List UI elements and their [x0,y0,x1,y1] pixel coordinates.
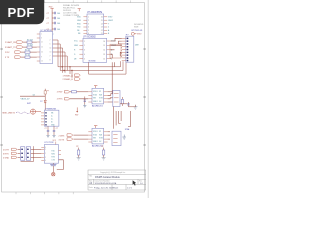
svg-text:104: 104 [57,13,60,15]
svg-text:V2: V2 [99,91,101,93]
svg-text:VISO: VISO [108,17,113,19]
wire U7 loop right [57,160,64,170]
connector plug symbol [30,109,41,114]
svg-text:3: 3 [84,50,85,52]
svg-text:4: 4 [45,147,46,149]
svg-text:3 DTX: 3 DTX [59,139,65,141]
capacitor CA [84,97,86,105]
port DTX [59,138,89,142]
wires P1 left nest [110,38,122,58]
power flag VISO [131,32,136,35]
IC U6 inner text [93,131,103,143]
svg-text:R?: R? [76,146,78,148]
connector P1 pads [127,38,129,62]
frame zone ticks right [143,49,145,145]
top-right note text [134,23,144,28]
IC U1 pin names [77,17,113,36]
IC U6 body [92,128,104,144]
IC U1 body [87,14,104,35]
port DTR [3,148,21,151]
svg-text:R? 10K: R? 10K [27,39,34,41]
svg-text:3: 3 [41,38,42,40]
capacitor C7 under U7 [50,163,56,172]
power arrow HGND [75,107,79,116]
svg-text:13: 13 [101,27,103,29]
svg-text:6: 6 [50,44,51,46]
svg-text:GND: GND [77,20,82,22]
diode D3 [40,96,46,110]
svg-text:5: 5 [45,125,46,127]
svg-text:4: 4 [88,27,89,29]
svg-text:Sheet: Sheet [113,186,119,189]
wires U6 right [108,132,110,139]
cap values [45,128,58,130]
IC U2 pin numbers [84,41,105,61]
net stub top U7 [53,140,57,144]
ground decoupling [51,33,54,36]
IC U4 right pins [104,92,108,102]
page right edge shade [148,0,149,198]
PDF badge [0,0,44,24]
svg-text:R? 1K: R? 1K [25,49,31,51]
svg-text:3 RTS: 3 RTS [3,154,9,156]
ground right cluster [133,105,137,109]
port UART_TX [5,44,37,49]
frame zone ticks bottom [16,192,73,194]
sheet frame border [2,3,145,192]
svg-text:SW?: SW? [27,103,31,105]
svg-text:R? 1K: R? 1K [25,54,31,56]
power tap U6 [94,126,97,129]
IC U6 left pins [88,132,92,142]
capacitor C4 [47,28,61,31]
svg-text:5 GND: 5 GND [3,158,10,160]
svg-text:RS485 Isolated Module: RS485 Isolated Module [95,176,121,179]
svg-text:GND1: GND1 [93,101,98,103]
svg-text:Friday, June 28, 2013: Friday, June 28, 2013 [94,187,114,189]
ground Y1 [122,135,126,140]
notes text block [63,4,80,17]
wires U4 to cluster [108,92,113,102]
svg-text:2: 2 [45,153,46,155]
capacitor C3 [47,22,61,25]
svg-text:1: 1 [41,34,42,36]
isolator A labels [57,92,63,101]
wire VBUS rail [20,95,45,97]
cursor arrow [133,180,137,185]
svg-text:BT7601.09: BT7601.09 [132,30,143,32]
resistor RB vertical [121,97,123,106]
svg-text:VBUS_5V: VBUS_5V [21,98,31,100]
power flag bottom [52,173,55,176]
wires cluster to U7 [31,149,42,157]
IC U2 left pins [79,41,83,59]
port RS485 A [63,67,81,78]
svg-text:GND2: GND2 [108,20,113,22]
svg-text:12: 12 [41,47,43,49]
svg-text:15: 15 [101,20,103,22]
svg-text:C?: C? [47,13,49,15]
svg-text:V2: V2 [99,131,101,133]
svg-text:GND1: GND1 [93,141,98,143]
wire usb squiggle [16,112,30,114]
port UART_RX [5,39,37,44]
svg-text:14: 14 [103,50,105,52]
svg-text:2: 2 [84,45,85,47]
svg-text:MINI_USB 5V: MINI_USB 5V [3,113,16,115]
svg-text:2: 2 [45,116,46,118]
capacitor C2 [47,17,61,20]
svg-text:1 of 1: 1 of 1 [127,187,133,189]
connector J2 body [45,110,59,126]
svg-text:R? 10K: R? 10K [27,44,34,46]
port TX [5,54,37,59]
D1 dots [21,149,23,158]
svg-text:C?: C? [47,18,49,20]
ground R9 [102,158,106,160]
svg-text:14: 14 [50,48,52,50]
capacitor C6 [53,126,55,135]
connector J2 pads [45,112,47,125]
svg-text:9: 9 [41,57,42,59]
svg-text:7: 7 [50,56,51,58]
wire decoupling rail [51,11,53,35]
svg-text:3 UART_TX: 3 UART_TX [5,46,16,49]
svg-text:Copyright (c) 2013 Example In: Copyright (c) 2013 Example Inc. [100,171,126,174]
svg-text:G2: G2 [99,141,101,143]
svg-text:10: 10 [41,52,43,54]
svg-text:104: 104 [57,23,60,25]
svg-text:15: 15 [41,61,43,63]
svg-text:D?: D? [40,101,42,103]
frame zone ticks left [0,49,2,145]
IC U1 pin numbers [88,17,103,36]
svg-text:3: 3 [45,119,46,121]
svg-text:D+: D+ [51,119,53,121]
Q1 right wire [120,103,127,105]
svg-text:2 DRX: 2 DRX [59,135,66,137]
svg-text:VDD1: VDD1 [93,131,98,133]
diode array D1 [21,147,25,160]
IC U7 right pins [59,150,62,154]
svg-text:ADUM1201: ADUM1201 [92,105,104,108]
power symbol +5V top [50,8,53,10]
D2 dots [27,149,29,158]
port iso A row1 [64,91,69,93]
svg-text:3: 3 [88,23,89,25]
IC U6 right pins [104,132,108,142]
svg-text:12: 12 [101,30,103,32]
junction dots bus [61,66,72,71]
connector J2 left pins [41,113,45,125]
svg-text:1: 1 [45,113,46,115]
svg-text:2: 2 [50,40,51,42]
svg-text:GND: GND [74,45,79,47]
IC U2 body [83,38,107,62]
connector J2 inner text [51,113,56,127]
svg-text:5: 5 [88,30,89,32]
svg-text:2 RX: 2 RX [5,52,10,54]
svg-text:3 TX: 3 TX [5,57,10,59]
title block outline [88,170,146,190]
IC U4 left pins [88,92,92,102]
svg-text:16: 16 [101,17,103,19]
title block texts [89,171,142,189]
svg-text:2: 2 [88,20,89,22]
svg-text:6: 6 [88,33,89,35]
IC U2 right pins [107,41,111,59]
J2 pin numbers [45,113,46,127]
svg-text:VISO: VISO [137,34,142,36]
port RX [5,49,37,54]
svg-text:2 H5V: 2 H5V [57,92,63,94]
svg-text:DB9: DB9 [135,45,139,47]
svg-text:C?: C? [47,23,49,25]
IC U5 labels left [59,134,89,138]
resistor RA [70,91,89,93]
capacitor C1 [47,12,61,15]
IC U4 inner text [93,91,103,103]
svg-text:14: 14 [101,23,103,25]
wire cluster to ground [128,105,135,107]
svg-text:13: 13 [50,52,52,54]
svg-text:PDF: PDF [8,5,35,20]
svg-text:104: 104 [57,18,60,20]
port RS485 B [63,71,81,82]
svg-text:F?: F? [47,90,49,92]
capacitor C5 [47,126,49,135]
IC U7 inner text [51,151,55,162]
ground C6 [52,135,55,137]
crystal Y1 body [112,131,121,145]
fuse F1 [44,89,49,96]
frame zone ticks top [16,0,130,2]
svg-text:1: 1 [45,149,46,151]
port iso A row2 [64,98,69,100]
svg-text:2 RS485_B: 2 RS485_B [63,79,74,81]
IC U7 body [44,145,58,164]
transistor cluster Q1 body [113,91,120,107]
svg-text:15: 15 [103,45,105,47]
Q1 inner marks [114,94,119,102]
svg-text:1: 1 [88,17,89,19]
ground CA [83,105,86,108]
diode array D2 [26,147,30,160]
svg-text:4: 4 [84,54,85,56]
svg-text:12: 12 [103,58,105,60]
resistor R8 pullup [76,146,80,157]
power tap U1 [78,9,81,12]
wire D join [21,146,34,161]
port GND [3,156,21,159]
IC U2 pin names [74,41,116,61]
ground R8 [77,158,81,160]
svg-text:1: 1 [84,41,85,43]
svg-text:ISOGND: ISOGND [89,61,97,63]
svg-text:Title: Title [89,174,92,177]
svg-text:11: 11 [101,33,103,35]
svg-text:13: 13 [103,54,105,56]
svg-text:SIDE: SIDE [134,27,139,29]
svg-text:16: 16 [103,41,105,43]
right vertical bus wires [112,62,130,128]
IC U1 left pins [83,17,87,34]
svg-text:SCH-RS485-MOD-001A: SCH-RS485-MOD-001A [95,182,117,185]
svg-text:2 DTR: 2 DTR [3,150,9,152]
svg-text:G2: G2 [99,101,101,103]
svg-text:4: 4 [45,122,46,124]
capacitor CB [127,102,129,107]
svg-text:VDD1: VDD1 [93,91,98,93]
svg-text:11: 11 [41,42,43,44]
IC U7 pin numbers [45,147,46,162]
IC U3 left pins [37,34,40,61]
svg-text:6: 6 [45,160,46,162]
port RTS [3,152,21,155]
IC U4 body [92,88,104,104]
svg-text:C?: C? [56,128,58,130]
svg-text:5: 5 [84,58,85,60]
IC U3 body [40,32,53,64]
IC U3 pin numbers [41,34,51,63]
connector P1 pin stubs [122,38,126,60]
connector P1 body [126,36,134,62]
resistor R9 pullup [101,146,105,157]
svg-text:8: 8 [50,60,51,62]
wire iso A row2 [70,98,89,100]
power tap U4 [94,86,97,89]
svg-text:3: 3 [45,157,46,159]
resistor RT1 termination [110,44,121,58]
IC U1 right pins [104,17,108,34]
svg-text:R?: R? [101,146,103,148]
Y1 inner marks [113,134,117,142]
svg-text:2 UART_RX: 2 UART_RX [5,41,17,44]
svg-text:2 HTX: 2 HTX [57,99,63,101]
IC U7 left pins [41,147,44,160]
svg-text:U? FT232: U? FT232 [44,142,54,144]
svg-text:C?: C? [45,128,47,130]
ground C5 [46,135,49,137]
svg-text:Date:: Date: [89,186,94,189]
IC U3 right wires routed to bus [53,40,126,74]
svg-text:104: 104 [57,29,60,31]
